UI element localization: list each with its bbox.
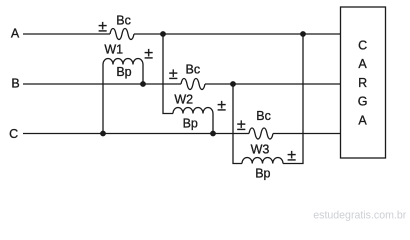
- potential coil Bp of W1: [103, 59, 143, 65]
- svg-text:C: C: [358, 38, 367, 52]
- junction dot line A / W2 Bp feed: [160, 31, 166, 37]
- svg-text:G: G: [358, 95, 368, 109]
- wire W3 Bp right terminal up to line A: [283, 34, 303, 164]
- svg-text:±: ±: [98, 18, 107, 35]
- wire phase B right segment: [205, 83, 340, 85]
- load box CARGA: [341, 7, 386, 158]
- svg-text:W2: W2: [174, 93, 193, 107]
- wire from line A down to W2 Bp left terminal: [163, 34, 173, 114]
- svg-text:C: C: [9, 127, 18, 141]
- junction dot line C / W1 Bp: [100, 131, 106, 137]
- wire phase B left segment: [23, 83, 181, 85]
- current coil Bc of W3 (wave in line C): [249, 128, 273, 139]
- wire W1 Bp left terminal down to line C: [102, 65, 104, 134]
- svg-text:W1: W1: [104, 43, 123, 57]
- svg-text:A: A: [358, 113, 367, 127]
- svg-text:R: R: [358, 76, 367, 90]
- wire phase A left segment: [23, 33, 110, 35]
- svg-text:Bp: Bp: [116, 65, 131, 79]
- svg-text:B: B: [11, 76, 19, 90]
- current coil Bc of W2 (wave in line B): [181, 79, 205, 90]
- junction dot line B / W3 Bp feed: [230, 81, 236, 87]
- wire W1 Bp right terminal down to line B: [142, 65, 144, 85]
- wire phase C left segment: [23, 133, 249, 135]
- junction dot line A / W3 Bp: [300, 31, 306, 37]
- svg-text:Bp: Bp: [183, 116, 198, 130]
- svg-text:±: ±: [169, 66, 178, 83]
- svg-text:estudegratis.com.br: estudegratis.com.br: [313, 209, 407, 221]
- svg-text:Bp: Bp: [255, 166, 270, 180]
- wire phase A right segment: [134, 33, 340, 35]
- svg-text:Bc: Bc: [186, 63, 201, 77]
- svg-text:A: A: [11, 27, 20, 41]
- wire phase C right segment: [273, 133, 340, 135]
- junction dot line C / W2 Bp: [210, 131, 216, 137]
- svg-text:±: ±: [144, 45, 153, 62]
- svg-text:W3: W3: [251, 143, 270, 157]
- svg-text:Bc: Bc: [256, 109, 271, 123]
- svg-text:±: ±: [217, 97, 226, 114]
- current coil Bc of W1 (wave in line A): [110, 29, 134, 40]
- junction dot line B / W1 Bp: [140, 81, 146, 87]
- potential coil Bp of W3: [242, 157, 283, 163]
- wire from line B down to W3 Bp left terminal: [233, 84, 242, 164]
- wire W2 Bp right terminal down to line C: [212, 114, 214, 134]
- svg-text:A: A: [358, 57, 367, 71]
- svg-text:±: ±: [287, 147, 296, 164]
- potential coil Bp of W2: [173, 108, 213, 114]
- svg-text:Bc: Bc: [116, 13, 131, 27]
- svg-text:±: ±: [237, 117, 246, 134]
